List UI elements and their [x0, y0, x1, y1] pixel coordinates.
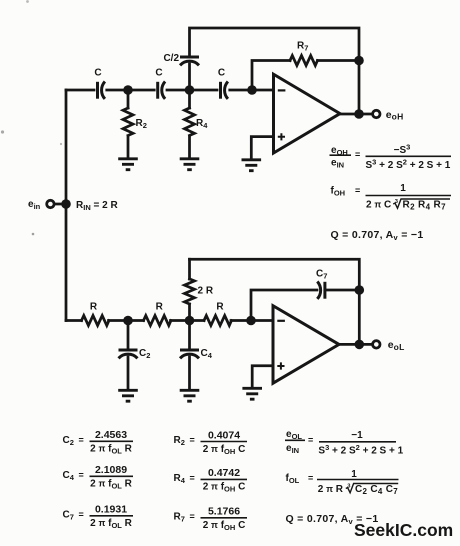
wire: U2 non-inverting input to ground — [252, 366, 273, 387]
node: bottom line junction 1 (C2) — [123, 316, 133, 326]
resistor 2R zigzag — [185, 279, 195, 304]
wire: left input rail — [65, 90, 68, 321]
equation C7 — [63, 504, 134, 530]
svg-text:2.4563: 2.4563 — [95, 429, 127, 441]
svg-text:C: C — [155, 68, 162, 79]
svg-text:5.1766: 5.1766 — [208, 506, 240, 518]
resistor R4 zigzag — [185, 108, 195, 136]
resistor R4 vertical leads — [188, 90, 191, 158]
svg-text:=: = — [190, 435, 195, 445]
node: bottom inverting input junction — [246, 316, 256, 326]
ground (U2 non-inverting input) — [242, 388, 262, 399]
capacitor C2 (vertical) — [119, 348, 151, 360]
svg-text:=: = — [355, 150, 360, 160]
capacitor C4 (vertical) — [180, 348, 213, 360]
svg-text:R: R — [90, 302, 98, 313]
svg-text:RIN = 2 R: RIN = 2 R — [76, 200, 118, 212]
equation C2 — [63, 429, 134, 455]
node: bottom line junction 2 (2R, C4) — [185, 316, 195, 326]
capacitor C2 upper lead — [127, 321, 130, 349]
svg-text:2 π fOH C: 2 π fOH C — [203, 482, 246, 494]
svg-text:2 π C: 2 π C — [366, 200, 391, 211]
equation eOL/eIN transfer function — [285, 429, 404, 457]
svg-text:R2 R4 R7: R2 R4 R7 — [403, 200, 447, 212]
svg-text:2 π fOL R: 2 π fOL R — [90, 479, 133, 491]
ground (below R2) — [118, 159, 138, 170]
svg-text:=: = — [79, 510, 84, 520]
wire: top feedback upper run (C/2 to output rail) — [190, 28, 360, 114]
svg-text:0.4074: 0.4074 — [208, 430, 240, 442]
equation C4 — [63, 464, 134, 490]
svg-text:C2 C4 C7: C2 C4 C7 — [355, 484, 398, 496]
resistor R (second, bottom) — [144, 316, 172, 326]
node: top inverting input junction — [247, 85, 257, 95]
svg-text:eoH: eoH — [386, 109, 404, 122]
svg-text:=: = — [79, 470, 84, 480]
svg-text:=: = — [79, 435, 84, 445]
svg-text:1: 1 — [400, 183, 406, 194]
svg-text:Q = 0.707, Av = −1: Q = 0.707, Av = −1 — [331, 229, 424, 242]
speck artifacts — [26, 0, 29, 3]
wire: R7 right lead — [318, 59, 360, 62]
equation fOH — [331, 183, 452, 211]
node: C7 to output rail — [355, 285, 365, 295]
resistor R2 vertical leads — [127, 90, 130, 158]
wire: top signal line — [66, 89, 274, 92]
wire: 2R top run to output rail — [190, 259, 360, 344]
op-amp U2 (low-pass) — [273, 306, 339, 384]
wire: bottom signal line segments between resistors — [66, 319, 273, 322]
svg-text:S3 + 2 S2 + 2 S + 1: S3 + 2 S2 + 2 S + 1 — [318, 443, 403, 457]
svg-text:2 R: 2 R — [198, 286, 214, 297]
ground (U1 non-inverting input) — [242, 160, 262, 171]
ground (below C4) — [180, 390, 200, 401]
svg-text:SeekIC.com: SeekIC.com — [354, 520, 453, 540]
op-amp U1 (high-pass) — [274, 74, 341, 153]
wire: U2 output lead — [339, 343, 372, 346]
resistor R (third, bottom) — [204, 316, 232, 326]
resistor R2 zigzag — [123, 108, 133, 136]
svg-text:=: = — [308, 435, 313, 445]
svg-text:0.4742: 0.4742 — [208, 467, 240, 479]
resistor 2R vertical leads — [188, 259, 191, 320]
wire: C/2 lower lead — [188, 64, 191, 90]
svg-text:=: = — [308, 473, 313, 483]
terminal e_in — [47, 200, 54, 207]
resistor R7 — [290, 56, 318, 66]
svg-text:2 π fOH C: 2 π fOH C — [203, 444, 246, 456]
svg-text:2.1089: 2.1089 — [95, 464, 127, 476]
terminal e_oH — [373, 110, 380, 117]
svg-text:C: C — [218, 68, 225, 79]
capacitor C2 lower lead — [127, 357, 130, 389]
svg-text:S3 + 2 S2 + 2 S + 1: S3 + 2 S2 + 2 S + 1 — [366, 157, 451, 171]
terminal e_oL — [373, 341, 380, 348]
equation eOH/eIN transfer function — [330, 143, 452, 171]
ground (below R4) — [180, 159, 200, 170]
wire: U1 non-inverting input to ground — [251, 137, 273, 158]
svg-text:1: 1 — [351, 469, 357, 480]
svg-text:C/2: C/2 — [163, 53, 179, 64]
ground (below C2) — [118, 390, 138, 401]
capacitor C4 upper lead — [188, 321, 191, 349]
svg-text:R: R — [156, 302, 164, 313]
capacitor C7 (horizontal, bottom feedback) — [316, 269, 327, 299]
wire: C7 right lead — [326, 289, 359, 292]
svg-text:2 π fOH C: 2 π fOH C — [203, 520, 246, 532]
svg-text:2 π R: 2 π R — [318, 484, 344, 495]
capacitor C (third, top line) — [218, 68, 229, 99]
wire: R7 branch from inverting node — [252, 61, 290, 91]
node: R7 to output rail — [354, 56, 364, 66]
svg-text:=: = — [355, 186, 360, 196]
node: top line junction 2 (R4, C/2) — [185, 85, 195, 95]
svg-text:−1: −1 — [351, 430, 363, 441]
node: input junction — [61, 199, 71, 209]
capacitor C (first, top line) — [94, 68, 105, 99]
equation R4 — [174, 467, 248, 493]
resistor R (first, bottom) — [82, 316, 109, 326]
capacitor C/2 (vertical) — [163, 53, 199, 65]
equation R7 — [174, 506, 248, 532]
node: U2 output junction — [355, 340, 365, 350]
svg-text:=: = — [190, 512, 195, 522]
wire: C7 branch from inverting node — [251, 290, 317, 321]
equation R2 — [174, 430, 248, 456]
capacitor C4 lower lead — [188, 357, 191, 389]
node: U1 output junction — [354, 109, 364, 119]
node: top line junction 1 (R2) — [123, 85, 133, 95]
equation fOL — [286, 469, 399, 496]
svg-text:2 π fOL R: 2 π fOL R — [90, 518, 133, 530]
capacitor C (second, top line) — [155, 68, 165, 99]
svg-text:2 π fOL R: 2 π fOL R — [90, 444, 133, 456]
wire: op-amp U1 output lead — [340, 113, 372, 116]
wire: e_in stub — [55, 203, 66, 206]
svg-text:C: C — [94, 68, 101, 79]
svg-text:=: = — [190, 473, 195, 483]
svg-text:R: R — [216, 302, 224, 313]
svg-text:0.1931: 0.1931 — [95, 504, 127, 516]
svg-text:eoL: eoL — [388, 339, 405, 352]
